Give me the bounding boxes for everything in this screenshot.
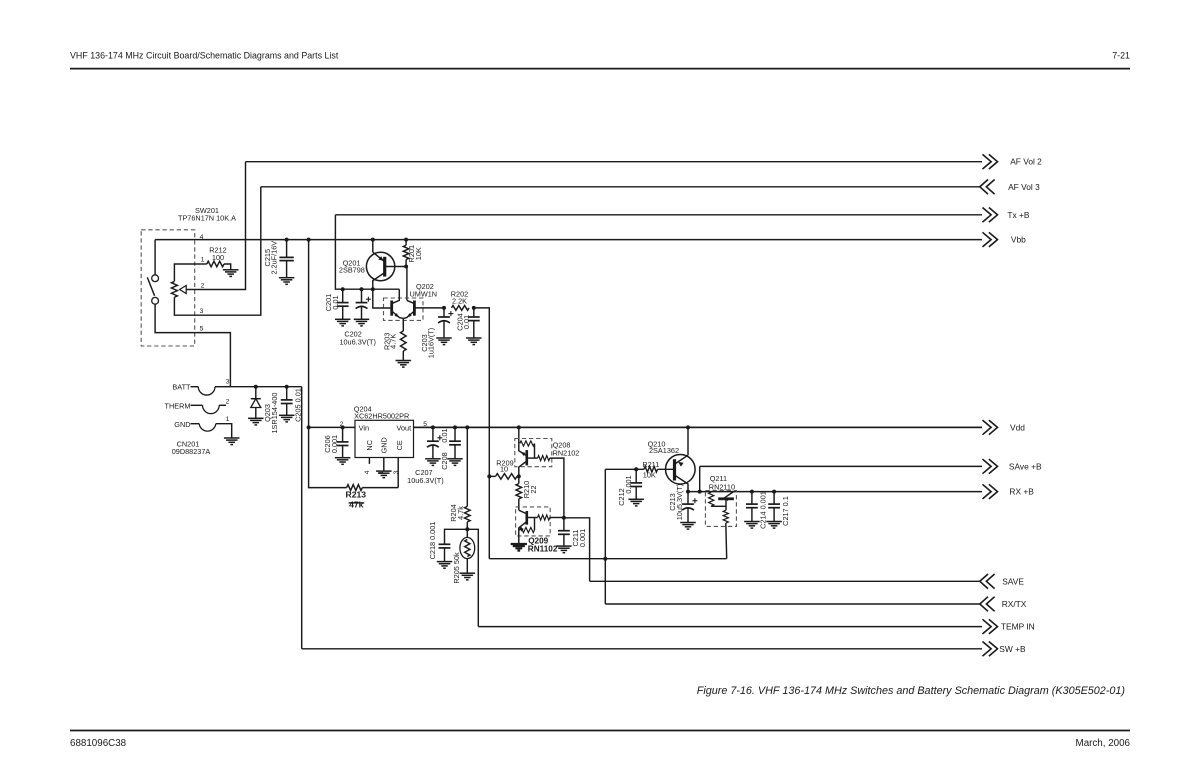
junction SAve corner [698, 490, 702, 494]
label R212 [209, 246, 226, 263]
svg-text:1u16V(T): 1u16V(T) [427, 328, 436, 358]
pin number 5 SW201 [200, 326, 204, 333]
label C215 [263, 241, 279, 275]
port label Vbb [1011, 235, 1026, 245]
thermistor R205 [460, 529, 475, 573]
pin number 4 Q204 [364, 470, 371, 474]
svg-text:3: 3 [200, 308, 204, 315]
label R213 [346, 489, 367, 509]
ground C213 [680, 523, 696, 530]
capacitor C215 [279, 257, 293, 260]
dashed outline SW201 [141, 230, 195, 346]
svg-text:XC62HR5002PR: XC62HR5002PR [354, 412, 409, 421]
junction C211 node [562, 516, 566, 520]
resistor R203 [401, 318, 407, 360]
dashed outline Q211 [705, 491, 736, 527]
label R202 [451, 289, 468, 305]
wire node to TEMP IN [467, 529, 478, 626]
junction C207 top [431, 425, 435, 429]
resistor R211 [644, 467, 658, 473]
junction Q210 collector node [686, 490, 690, 494]
wire R204 from Vout [466, 427, 468, 506]
wire Q208 emitter from Vdd [518, 427, 520, 443]
header title [70, 51, 339, 61]
wire C205 stub [286, 387, 288, 400]
potentiometer element SW201 [171, 281, 177, 297]
svg-text:6881096C38: 6881096C38 [70, 738, 127, 749]
wire Vdd rail [414, 426, 983, 428]
svg-text:UMW1N: UMW1N [410, 289, 438, 298]
capacitor C204 [468, 317, 480, 321]
transistor Q210 circle [666, 455, 696, 485]
transistor Q201 bar [383, 257, 386, 277]
transistor Q211 base lead [725, 499, 727, 511]
wire Vin [309, 426, 355, 428]
pin label Vin [359, 424, 369, 433]
wire C211 node to SAVE [564, 518, 590, 582]
pin number 5 Q204 [423, 421, 427, 428]
ground C218 [437, 562, 453, 569]
wire Tx +B drop [335, 215, 399, 289]
transistor Q202 left bar [390, 301, 393, 316]
wire BATT corner down to SW+B [301, 387, 303, 649]
wire C213 stub [687, 492, 689, 505]
svg-text:NC: NC [365, 440, 374, 451]
transistor Q211 emitter [725, 492, 734, 502]
svg-text:1SR154-400: 1SR154-400 [270, 393, 279, 434]
capacitor C212 [630, 483, 642, 487]
capacitor C203 [438, 311, 453, 323]
ground Q203 [248, 418, 263, 425]
label Q208 [553, 441, 580, 458]
svg-text:Tx +B: Tx +B [1007, 210, 1030, 220]
svg-text:March, 2006: March, 2006 [1076, 738, 1131, 749]
ground Q209 [511, 544, 527, 551]
capacitor C207 [427, 435, 442, 447]
dashed outline Q208 [515, 439, 552, 467]
label Q202 [410, 282, 438, 299]
ground C208 [447, 459, 463, 466]
label C208 [440, 428, 449, 469]
junction Vin tap [307, 425, 311, 429]
switch blade SW201 [147, 277, 154, 295]
transistor Q208 base lead [527, 457, 538, 459]
pin number 3 SW201 [200, 308, 204, 315]
resistor R212 [200, 261, 231, 270]
wire C207 to ground [432, 445, 434, 459]
svg-text:C208: C208 [440, 452, 449, 469]
wire TEMP IN rail [478, 626, 982, 628]
label C212 [617, 475, 633, 505]
svg-text:10u5.3V(T): 10u5.3V(T) [675, 484, 684, 521]
svg-text:2.2K: 2.2K [452, 297, 467, 306]
wire C217 to ground [773, 508, 775, 522]
footer date [1076, 738, 1131, 749]
port arrow SAve +B [983, 459, 998, 474]
svg-text:4: 4 [200, 234, 204, 241]
capacitor C217 [768, 504, 780, 508]
wire C202 stub [361, 289, 363, 302]
port label AF Vol 2 [1010, 157, 1042, 167]
wire C213 to ground [687, 508, 689, 523]
svg-text:RN1102: RN1102 [528, 545, 558, 554]
label C201 [324, 294, 340, 311]
svg-text:SAve +B: SAve +B [1009, 461, 1042, 471]
junction Vdd Q208 [517, 425, 521, 429]
svg-text:10: 10 [500, 465, 508, 474]
svg-text:SAVE: SAVE [1002, 576, 1024, 586]
wire R211 feed [605, 468, 644, 470]
junction C217 top [772, 490, 776, 494]
svg-text:0.001: 0.001 [330, 435, 339, 453]
label C204 [455, 313, 471, 330]
transistor Q211 internal resistor R1 [709, 492, 726, 507]
port arrow RX +B [983, 484, 998, 499]
port arrow Tx +B [983, 208, 998, 223]
svg-text:AF Vol 3: AF Vol 3 [1008, 182, 1040, 192]
wire Q202 left collector drop [392, 289, 400, 303]
pin number 1 SW201 [201, 257, 205, 264]
wire Tx +B rail [335, 214, 982, 216]
svg-text:BATT: BATT [172, 383, 191, 392]
wire BATT rail [230, 386, 301, 388]
label R204 [449, 504, 465, 521]
port label Tx +B [1007, 210, 1030, 220]
transistor Q209 bar [525, 511, 528, 525]
transistor Q210 emitter diagonal [675, 449, 688, 467]
wire C205 to ground [286, 404, 288, 416]
pin number 1 CN201 [226, 416, 230, 423]
svg-text:Vbb: Vbb [1011, 235, 1026, 245]
resistor R210 [516, 476, 522, 510]
pin number 1 Q204 [378, 470, 385, 474]
wire R202 right to RXTX net [474, 308, 490, 559]
label C207 [407, 468, 444, 485]
wire C217 stub [773, 492, 775, 505]
wire C206 to ground [342, 446, 344, 458]
svg-text:Vin: Vin [359, 424, 369, 433]
ground C212 [628, 499, 644, 506]
wire SW201 pin 4 [154, 240, 156, 275]
wire Q201 emitter to Vbb [372, 240, 374, 253]
svg-text:2SB798: 2SB798 [339, 265, 365, 274]
transistor Q202 left emitter [392, 311, 404, 318]
capacitor C202 [356, 297, 371, 309]
pin number 2 CN201 [226, 399, 230, 406]
svg-text:3: 3 [226, 379, 230, 386]
svg-text:Vdd: Vdd [1010, 422, 1025, 432]
wire C218 to ground [444, 548, 446, 562]
svg-text:7-21: 7-21 [1112, 51, 1130, 61]
junction R204 top [465, 425, 469, 429]
label CN201 [172, 439, 211, 456]
capacitor C211 [558, 531, 570, 535]
transistor Q209 base lead [527, 517, 538, 519]
transistor Q201 circle [366, 252, 394, 280]
junction C206 top [341, 425, 345, 429]
ground R205 [460, 573, 476, 580]
transistor Q209 emitter [519, 522, 527, 545]
wire C202 to ground [361, 306, 363, 319]
wire SW201 lower contact to pin 5 [155, 304, 230, 386]
label C206 [323, 435, 339, 453]
wire C204 stub [473, 308, 475, 317]
label Q210 [648, 439, 679, 455]
wire Q203 stub [255, 387, 257, 399]
pin label GND [379, 437, 388, 453]
wire C215 to ground [286, 261, 288, 278]
transistor Q208 bar [525, 450, 528, 465]
port arrow SW +B [983, 642, 998, 657]
svg-text:GND: GND [379, 437, 388, 453]
svg-text:C214 0.001: C214 0.001 [759, 491, 768, 529]
junction C212 top [634, 467, 638, 471]
ground C202 [354, 319, 370, 326]
svg-text:1: 1 [201, 257, 205, 264]
svg-text:RN2110: RN2110 [709, 482, 735, 491]
stub NC pin [368, 457, 370, 464]
svg-text:2.2uF/16V: 2.2uF/16V [270, 241, 279, 275]
transistor Q202 right emitter [403, 311, 414, 318]
svg-text:4.7k: 4.7k [456, 506, 465, 520]
junction C214 top [750, 490, 754, 494]
pin number 4 SW201 [200, 234, 204, 241]
svg-text:0.01: 0.01 [462, 315, 471, 329]
transistor Q208 emitter [519, 443, 526, 456]
wire R211 to Q210 base [658, 468, 675, 470]
resistor R213 [347, 485, 399, 491]
wire R201 junction down to Q202 collector [406, 267, 408, 301]
header page number 7-21 [1112, 51, 1130, 61]
svg-text:0.01: 0.01 [440, 428, 449, 442]
ground Q204 [376, 471, 392, 478]
label Q204 [354, 405, 409, 421]
port label AF Vol 3 [1008, 182, 1040, 192]
wire Q201 collector to Q202 base [373, 289, 392, 308]
header rule [70, 68, 1130, 70]
junction thermistor node [465, 527, 469, 531]
wire C201 stub [342, 289, 344, 302]
ground C204 [466, 338, 482, 345]
svg-text:R205 50k: R205 50k [452, 552, 461, 584]
port arrow RX/TX [980, 597, 995, 612]
label BATT [172, 383, 191, 392]
svg-text:AF Vol 2: AF Vol 2 [1010, 157, 1042, 167]
label Q201 [339, 259, 365, 275]
wire GND pin [383, 457, 385, 471]
label SW201 [178, 206, 236, 223]
wire SAVE rail [590, 580, 980, 582]
wire R201 from Vbb [405, 240, 407, 246]
svg-text:Figure 7-16. VHF 136-174 MHz S: Figure 7-16. VHF 136-174 MHz Switches an… [697, 685, 1125, 697]
wire C207 stub [432, 427, 434, 441]
svg-text:10K: 10K [643, 471, 656, 480]
label C217 [781, 496, 790, 526]
wire Q202 emitters to R203 [402, 318, 404, 325]
junction C205 top [285, 385, 289, 389]
pin number 3 Q204 [393, 470, 400, 474]
svg-text:10u6.3V(T): 10u6.3V(T) [407, 476, 444, 485]
transistor Q202 right bar [413, 301, 416, 316]
junction C208 top [453, 425, 457, 429]
wire pot top to pin1 [174, 264, 200, 281]
capacitor C201 [337, 303, 349, 307]
port arrow Vbb [983, 232, 998, 247]
capacitor C214 [746, 504, 758, 508]
svg-text:3: 3 [393, 470, 400, 474]
wire SAve +B corner [699, 466, 701, 491]
wire R201 to base junction [405, 260, 407, 267]
figure caption [697, 685, 1125, 697]
svg-text:2SA1362: 2SA1362 [649, 446, 679, 455]
svg-text:47k: 47k [349, 499, 364, 509]
svg-text:22: 22 [529, 485, 538, 493]
wire CE pin to R213 [397, 457, 399, 487]
pot wiper arrow [180, 286, 187, 294]
footer part number [70, 738, 127, 749]
port label SAVE [1002, 576, 1024, 586]
svg-text:THERM: THERM [165, 401, 191, 410]
svg-text:RN2102: RN2102 [553, 449, 580, 458]
svg-text:4.7K: 4.7K [388, 334, 397, 349]
svg-text:1: 1 [226, 416, 230, 423]
port label SW +B [999, 644, 1026, 654]
junction R209 left [487, 474, 491, 478]
wire C201 to ground [342, 306, 344, 319]
wire RXTX 558 rail [489, 558, 726, 560]
wire AF Vol 3 rail [261, 186, 980, 188]
wire C208 to ground [454, 445, 456, 459]
wire C212 stub [635, 469, 637, 483]
ground R203 [396, 361, 412, 368]
transistor Q209 collector [519, 510, 526, 513]
wire C203 stub [443, 308, 445, 317]
capacitor C206 [337, 442, 349, 446]
junction RXTX cross [603, 557, 607, 561]
svg-text:TEMP IN: TEMP IN [1001, 622, 1035, 632]
svg-text:TP76N17N 10K.A: TP76N17N 10K.A [178, 214, 236, 223]
junction C201 top [341, 287, 345, 291]
junction C202 top [360, 287, 364, 291]
label R203 [383, 333, 398, 350]
ground C205 [279, 415, 295, 422]
label THERM [165, 401, 191, 410]
resistor R204 [465, 506, 471, 529]
wire C206 stub [342, 427, 344, 442]
port label RX/TX [1002, 599, 1027, 609]
pin label CE [395, 440, 404, 450]
capacitor C205 [281, 400, 293, 404]
connector pin THERM [191, 405, 227, 413]
label Q209 [528, 536, 558, 553]
wire C215 from Vbb [286, 240, 288, 258]
wire SAve +B rail [700, 465, 982, 467]
svg-text:C217 0.1: C217 0.1 [781, 496, 790, 526]
svg-text:CE: CE [395, 440, 404, 450]
port arrow TEMP IN [983, 619, 998, 634]
svg-text:R211: R211 [642, 460, 659, 469]
ground C206 [335, 458, 351, 465]
label C211 [571, 529, 587, 547]
ic outline Q204 [355, 420, 414, 457]
transistor Q209 base resistor R2 [538, 515, 564, 520]
svg-text:09D88237A: 09D88237A [172, 447, 211, 456]
ground R212 [223, 270, 239, 277]
wire Vin tap down to R213 [309, 427, 347, 487]
wire C203 to ground [443, 321, 445, 338]
label Q203 [263, 393, 279, 434]
ground C215 [279, 278, 295, 285]
wire node to C218 [445, 529, 468, 544]
pin number 3 CN201 [226, 379, 230, 386]
svg-text:RX +B: RX +B [1009, 487, 1034, 497]
transistor Q210 collector diagonal [675, 475, 689, 492]
port arrow Vdd [983, 420, 998, 435]
wire C204 to ground [473, 321, 475, 338]
junction Q201 collector on wire [371, 287, 375, 291]
ground CN201 [224, 438, 240, 445]
port label TEMP IN [1001, 622, 1035, 632]
transistor Q211 base resistor R2 [723, 510, 728, 558]
label C203 [420, 328, 436, 358]
svg-text:5: 5 [200, 326, 204, 333]
junction R201 Vbb [404, 238, 408, 242]
svg-text:2: 2 [226, 399, 230, 406]
ground C217 [766, 522, 782, 529]
transistor Q208 collector [519, 461, 527, 476]
svg-text:VHF 136-174 MHz Circuit Board/: VHF 136-174 MHz Circuit Board/Schematic … [70, 51, 339, 61]
port label SAve +B [1009, 461, 1042, 471]
wire C214 to ground [751, 508, 753, 522]
junction Q201 base R201 [404, 265, 408, 269]
junction Q203 anode [254, 385, 258, 389]
svg-text:2: 2 [201, 283, 205, 290]
port arrow SAVE [980, 574, 995, 589]
transistor Q202 right base lead [414, 307, 444, 309]
wire RX/TX rail [605, 603, 980, 605]
wire pot bottom to pin3 [174, 187, 260, 315]
wire wiper to pin2 and AF Vol 2 [186, 162, 245, 290]
svg-text:100: 100 [212, 253, 224, 262]
transistor Q201 emitter diagonal [373, 252, 385, 261]
wire C214 stub [751, 492, 753, 505]
transistor Q208 internal resistor R1 [520, 441, 535, 458]
svg-text:GND: GND [174, 420, 190, 429]
svg-text:10K: 10K [414, 247, 423, 260]
svg-text:10u6.3V(T): 10u6.3V(T) [339, 338, 376, 347]
dashed outline Q202 [384, 298, 424, 320]
wire C212 to ground [635, 487, 637, 500]
svg-text:0.001: 0.001 [624, 475, 633, 493]
ground C203 [436, 338, 452, 345]
diode Q203 [251, 399, 261, 419]
junction Q201 emitter Vbb [371, 238, 375, 242]
label C202 [339, 330, 376, 347]
wire Q210 emitter from Vdd [687, 427, 689, 449]
capacitor C208 [449, 441, 461, 445]
ground C211 [556, 546, 572, 553]
label GND [174, 420, 190, 429]
wire C211 to ground [563, 534, 565, 546]
wire Vbb rail [155, 239, 982, 241]
pin number 2 Q204 [340, 421, 344, 428]
transistor Q209 internal resistor R1 [519, 518, 535, 533]
resistor R201 [403, 245, 409, 259]
connector pin BATT [191, 387, 231, 395]
pin number 2 SW201 [201, 283, 205, 290]
junction Vbb vertical [307, 238, 311, 242]
label C218 [428, 522, 437, 560]
